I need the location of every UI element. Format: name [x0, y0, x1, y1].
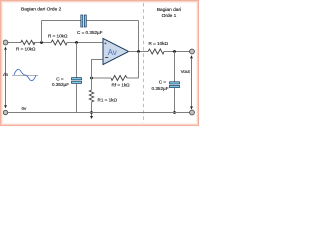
- stage 2 resistor R = 10k: [148, 49, 164, 54]
- svg-text:Rf = 1kΩ: Rf = 1kΩ: [112, 82, 131, 87]
- resistor R1 = 1k (to ground) wire: [91, 78, 93, 90]
- wire: shunt cap to ground rail: [76, 84, 78, 113]
- source waveform: sine curve: [14, 69, 36, 80]
- svg-text:Vout: Vout: [181, 69, 191, 74]
- junction node A: [40, 41, 43, 44]
- wire: top feedback run to capacitor: [42, 20, 82, 22]
- resistor R1 = 1k zigzag: [89, 90, 93, 102]
- svg-text:R = 10kΩ: R = 10kΩ: [48, 33, 68, 38]
- page frame (decorative): [1, 1, 199, 126]
- wire: stage2 cap to rail: [174, 88, 176, 113]
- capacitor C3 0.352uF (stage 2 shunt): [170, 82, 180, 88]
- svg-text:R = 10kΩ: R = 10kΩ: [16, 46, 36, 51]
- junction on rail below R1: [90, 111, 93, 114]
- svg-text:C = 0.352µF: C = 0.352µF: [77, 30, 103, 35]
- terminal: bottom-right ground: [190, 110, 195, 115]
- junction: output node: [137, 50, 140, 53]
- terminal: output: [190, 49, 195, 54]
- capacitor C2 plates: [72, 78, 82, 84]
- wire: op-amp output: [129, 51, 149, 53]
- svg-text:0.352µF: 0.352µF: [52, 82, 69, 87]
- svg-text:0.352µF: 0.352µF: [152, 86, 169, 91]
- op-amp U1: [103, 38, 129, 64]
- Vout indicator line with arrows: [190, 55, 193, 109]
- svg-text:C =: C =: [159, 80, 167, 85]
- terminal: input: [3, 40, 8, 45]
- wire: Rf to inverting node: [92, 77, 112, 79]
- ground marker arrow below rail: [90, 113, 93, 119]
- junction: stage2 output node: [173, 50, 176, 53]
- svg-text:0v: 0v: [22, 106, 28, 111]
- junction: inverting node: [90, 77, 93, 80]
- wire: capacitor to right corner: [87, 20, 139, 22]
- svg-text:R1 = 1kΩ: R1 = 1kΩ: [98, 98, 118, 103]
- wire: inverting node to op-amp - input: [92, 60, 104, 79]
- wire: R to op-amp + input: [67, 42, 103, 44]
- svg-text:Av: Av: [108, 48, 117, 57]
- Vin indicator line with arrows: [4, 47, 7, 109]
- svg-text:Bagian dari: Bagian dari: [157, 7, 181, 13]
- wire: stage2 cap branch: [174, 52, 176, 82]
- resistor R2a R = 10k (second series): [51, 40, 67, 45]
- ground rail 0v: [6, 112, 193, 114]
- svg-text:Bagian dari Orde 2: Bagian dari Orde 2: [21, 6, 62, 12]
- stage separator dashed line: [143, 3, 145, 123]
- svg-text:+: +: [104, 41, 107, 47]
- wire: feedback to Rf: [127, 77, 139, 79]
- source waveform: sine symbol axis: [12, 75, 38, 77]
- terminal: bottom-left ground: [3, 110, 7, 114]
- capacitor C1 0.352uF (feedback, vertical plates): [81, 15, 87, 27]
- svg-text:R = 10kΩ: R = 10kΩ: [149, 41, 169, 46]
- wire: R to node A: [33, 42, 51, 44]
- svg-text:Orde 1: Orde 1: [162, 13, 177, 19]
- wire: R1 to ground rail: [91, 102, 93, 113]
- resistor Rf = 1k: [111, 76, 127, 81]
- capacitor C2 0.352uF (shunt at op-amp input) wire: [76, 43, 78, 78]
- wire: gain feedback drop: [138, 52, 140, 79]
- resistor R1a R = 10k (input series): [21, 40, 35, 44]
- wire: feedback drop to output node: [138, 21, 140, 52]
- wire: feedback riser from node A: [41, 21, 43, 43]
- wire: input to R: [8, 42, 22, 44]
- junction on rail below C3: [173, 111, 176, 114]
- wire: stage2 R to output terminal: [164, 51, 190, 53]
- junction node B: [75, 41, 78, 44]
